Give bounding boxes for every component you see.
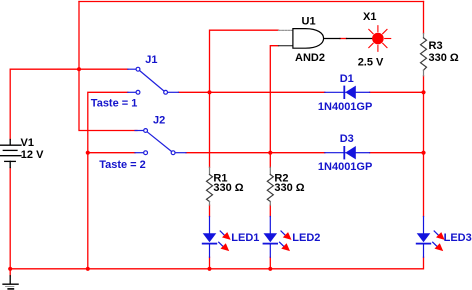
svg-text:330 Ω: 330 Ω xyxy=(213,182,243,194)
wire J2 common to D3 anode xyxy=(186,152,325,154)
LED2 xyxy=(264,217,292,258)
node D3 cathode junction xyxy=(421,151,425,155)
node J2 output / branch B junction xyxy=(268,151,272,155)
svg-text:LED3: LED3 xyxy=(444,232,472,244)
svg-text:Taste = 1: Taste = 1 xyxy=(91,98,138,110)
wire branch A vertical (gate input 1 / R1) xyxy=(210,30,279,167)
svg-text:Taste = 2: Taste = 2 xyxy=(99,159,146,171)
node J2 lower throw junction xyxy=(86,151,90,155)
LED1 xyxy=(203,217,231,258)
svg-text:D3: D3 xyxy=(340,133,354,145)
node J1 output / branch A junction xyxy=(207,90,211,94)
node ground rail left corner xyxy=(8,267,12,271)
svg-text:330 Ω: 330 Ω xyxy=(274,182,304,194)
ground xyxy=(3,276,18,289)
svg-text:12 V: 12 V xyxy=(21,149,44,161)
wire battery plus to J1 upper throw xyxy=(10,69,128,139)
svg-text:J1: J1 xyxy=(145,54,157,66)
battery V1 xyxy=(0,140,21,168)
wire D1 cathode to right rail xyxy=(370,91,424,93)
resistor R2 xyxy=(267,167,273,205)
wire J1 common to D1 anode xyxy=(179,91,325,93)
node ground rail / J lower line xyxy=(86,267,90,271)
wire battery minus down xyxy=(9,168,11,269)
wire R1 bottom to LED1 xyxy=(209,205,211,216)
wire ground stub xyxy=(9,269,11,276)
node D1 cathode junction xyxy=(421,90,425,94)
svg-text:D1: D1 xyxy=(340,73,354,85)
wire LED2 to ground rail xyxy=(269,257,271,269)
node ground rail / LED1 xyxy=(207,267,211,271)
wire D3 cathode to right rail xyxy=(370,152,424,154)
op-amp U1 AND gate pin 1 (dashed, logic high) xyxy=(279,29,293,31)
lamp X1 xyxy=(347,26,391,52)
node battery/top-rail junction xyxy=(77,67,81,71)
svg-text:1N4001GP: 1N4001GP xyxy=(318,101,372,113)
wire bottom ground rail xyxy=(10,257,423,269)
diode D3 xyxy=(325,146,370,159)
op-amp U1 AND2 gate body xyxy=(293,29,324,49)
wire J1 lower throw down to ground rail xyxy=(88,92,128,268)
svg-text:V1: V1 xyxy=(21,137,34,149)
node ground rail / LED2 xyxy=(268,267,272,271)
svg-text:AND2: AND2 xyxy=(295,52,325,64)
wire LED1 to ground rail xyxy=(209,257,211,269)
svg-text:X1: X1 xyxy=(363,11,376,23)
wire gate output to lamp xyxy=(340,38,347,40)
wire top supply rail xyxy=(79,1,424,3)
resistor R1 xyxy=(207,167,213,205)
wire J2 lower throw stub xyxy=(88,152,135,154)
svg-text:U1: U1 xyxy=(302,15,316,27)
svg-text:R3: R3 xyxy=(429,40,443,52)
resistor R3 xyxy=(421,34,427,76)
svg-text:2.5 V: 2.5 V xyxy=(358,57,384,69)
svg-text:330 Ω: 330 Ω xyxy=(429,52,459,64)
svg-text:J2: J2 xyxy=(153,115,165,127)
wire branch B vertical (gate input 2 / R2) xyxy=(270,46,278,168)
op-amp U1 AND gate output pin xyxy=(324,38,340,40)
wire left supply drop to J2 upper throw xyxy=(79,2,137,131)
diode D1 xyxy=(325,86,370,99)
wire R2 bottom to LED2 xyxy=(269,205,271,216)
wire right rail R3 to LED3 xyxy=(423,76,425,217)
svg-text:LED1: LED1 xyxy=(231,232,259,244)
switch J1 xyxy=(128,67,179,94)
switch J2 xyxy=(135,129,186,155)
wire right rail top to R3 xyxy=(423,2,425,34)
svg-text:1N4001GP: 1N4001GP xyxy=(318,161,372,173)
LED3 xyxy=(417,217,445,258)
op-amp U1 AND gate pin 2 xyxy=(279,45,293,47)
svg-text:LED2: LED2 xyxy=(292,232,320,244)
